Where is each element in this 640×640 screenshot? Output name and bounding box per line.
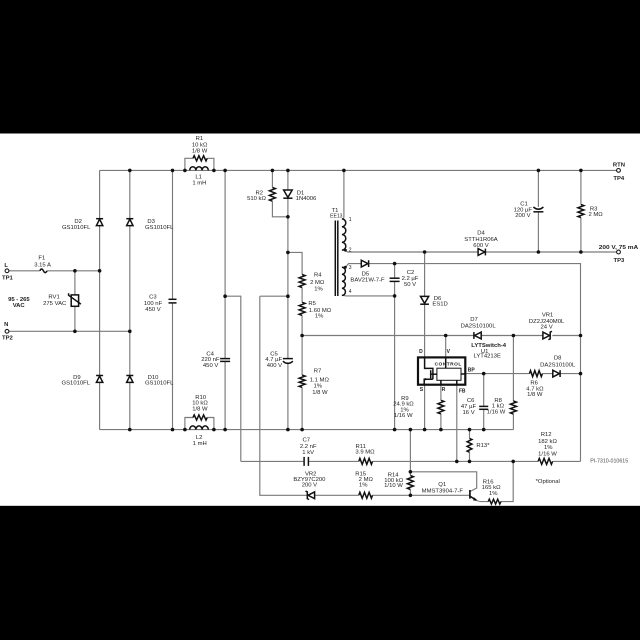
wire: R14 branch	[409, 430, 411, 496]
junction (287.9,252.4)	[286, 251, 290, 255]
junction (410.4,429.6)	[409, 428, 413, 432]
junction (225.1,296.2)	[223, 294, 227, 298]
resistor R2	[269, 187, 275, 201]
U1 internal R stub	[440, 380, 442, 384]
wire: V-pin sense line	[302, 335, 580, 337]
capacitor C1	[533, 207, 543, 209]
svg-text:F1: F1	[38, 255, 45, 261]
svg-text:RV1: RV1	[48, 294, 59, 300]
junction (287.9,429.6)	[286, 428, 290, 432]
diode D1	[284, 190, 293, 197]
junction (74.9,270.8)	[73, 269, 77, 273]
capacitor C3	[169, 298, 177, 300]
resistor R3	[578, 205, 584, 218]
junction (184.9,429.6)	[183, 428, 187, 432]
wire: RV1 vertical leads	[74, 271, 76, 332]
svg-text:MMST3904-7-F: MMST3904-7-F	[422, 488, 464, 494]
top letterbox band	[0, 0, 640, 134]
junction (580.9,170.4)	[579, 169, 583, 173]
inductor L1	[190, 167, 209, 171]
wire: T1 pin4 lead	[342, 294, 395, 297]
wire: Q1 collector line	[410, 472, 476, 491]
svg-text:510 kΩ: 510 kΩ	[247, 196, 266, 202]
svg-text:TP2: TP2	[2, 336, 14, 342]
svg-text:1/16 W: 1/16 W	[487, 410, 506, 416]
wire: lower feedback line with C7 R11 R12	[241, 460, 581, 462]
junction (225.1,429.6)	[223, 428, 227, 432]
svg-text:1: 1	[349, 217, 352, 223]
wire: C4 vertical branch	[224, 170, 226, 429]
wire: D3/D10 vertical branch	[129, 170, 131, 429]
svg-text:D4: D4	[477, 231, 485, 237]
wire: C2 vertical / bias return	[394, 264, 396, 430]
wire: C6 branch	[483, 374, 485, 430]
svg-text:100 nF: 100 nF	[144, 301, 163, 307]
resistor R13	[467, 438, 472, 452]
wire: N input line	[9, 330, 130, 332]
svg-text:600 V: 600 V	[473, 243, 488, 249]
svg-text:1 mH: 1 mH	[192, 181, 206, 187]
svg-text:D: D	[419, 349, 423, 355]
junction (394.6,429.6)	[393, 428, 397, 432]
terminal TP2 (N)	[5, 329, 9, 333]
resistor R10	[193, 415, 207, 420]
svg-text:*Optional: *Optional	[536, 479, 560, 485]
IC U1 LYTSwitch-4 outline	[418, 357, 465, 384]
svg-text:1 kV: 1 kV	[302, 450, 314, 456]
junction (129.8,331.3)	[128, 330, 132, 334]
svg-text:RTN: RTN	[613, 162, 625, 168]
svg-text:N: N	[4, 322, 8, 328]
wire: R pin lead through R9	[440, 385, 442, 430]
svg-text:3: 3	[349, 265, 352, 271]
svg-text:PI-7310-010615: PI-7310-010615	[590, 459, 628, 465]
svg-text:1/16 W: 1/16 W	[538, 452, 557, 458]
junction (469.5,429.6)	[468, 428, 472, 432]
svg-text:450 V: 450 V	[145, 307, 160, 313]
wire: T1 pin2 / drain / D4 output line	[342, 250, 617, 252]
svg-text:D7: D7	[470, 317, 478, 323]
diode D2	[96, 218, 103, 220]
junction (483.7,429.6)	[482, 428, 486, 432]
svg-text:TP3: TP3	[613, 258, 625, 264]
junction (287.9,296.2)	[286, 294, 290, 298]
svg-text:1/8 W: 1/8 W	[192, 148, 208, 154]
junction (410.4,495.3)	[409, 494, 413, 498]
svg-text:STTH1R06A: STTH1R06A	[464, 237, 497, 243]
zener VR1	[543, 332, 550, 339]
svg-text:GS1010FL: GS1010FL	[145, 225, 174, 231]
svg-text:BAV21W-7-F: BAV21W-7-F	[350, 277, 385, 283]
resistor R11	[359, 458, 373, 464]
wire: L input line with fuse gap	[9, 270, 100, 272]
junction (483.7,373.6)	[482, 372, 486, 376]
capacitor C6	[479, 405, 488, 407]
svg-text:L: L	[4, 263, 8, 269]
svg-text:D2: D2	[74, 219, 82, 225]
wire: R10 bypass loop	[185, 418, 214, 430]
diode D8	[553, 370, 560, 377]
capacitor C2	[390, 277, 400, 279]
wire: R15/R14/Q1 base line	[315, 494, 470, 496]
wire: snubber node to VR2 line	[260, 296, 307, 495]
svg-text:R: R	[442, 387, 446, 393]
junction (213.9,170.4)	[212, 169, 216, 173]
svg-text:GS1010FL: GS1010FL	[145, 381, 174, 387]
svg-text:1/8 W: 1/8 W	[312, 390, 328, 396]
junction (538.4,252.0)	[537, 250, 541, 254]
svg-text:3.9 MΩ: 3.9 MΩ	[355, 450, 375, 456]
svg-text:1/10 W: 1/10 W	[384, 483, 403, 489]
svg-text:275 VAC: 275 VAC	[43, 301, 67, 307]
diode D7	[475, 332, 482, 339]
terminal TP4 (RTN)	[617, 169, 621, 173]
svg-text:1/16 W: 1/16 W	[394, 413, 413, 419]
wire: T1 pin3 lead to D5	[342, 264, 395, 268]
junction (394.6,295.9)	[393, 294, 397, 298]
svg-text:BP: BP	[468, 367, 476, 373]
U1 internal V line	[445, 357, 447, 368]
terminal TP3 (output)	[617, 250, 621, 254]
svg-text:D8: D8	[554, 356, 562, 362]
resistor R5	[299, 302, 305, 315]
junction (129.8,429.6)	[128, 428, 132, 432]
junction (302.1,335.5)	[300, 334, 304, 338]
resistor R7	[299, 375, 305, 387]
junction (580.5,373.6)	[579, 372, 583, 376]
wire: R8 branch	[512, 336, 514, 430]
diode D10	[126, 375, 133, 377]
svg-text:L1: L1	[195, 174, 202, 180]
junction (456.8,461.4)	[455, 460, 459, 464]
transformer T1 bias winding	[342, 267, 346, 295]
diode D5	[361, 260, 368, 267]
resistor R14	[407, 476, 413, 490]
wire: R4/R5/R7 sense divider chain	[288, 252, 302, 429]
svg-text:200 V, 75 mA: 200 V, 75 mA	[599, 245, 639, 251]
junction (287.9,170.4)	[286, 169, 290, 173]
svg-text:R13*: R13*	[476, 443, 490, 449]
junction (213.9,429.6)	[212, 428, 216, 432]
wire: C1 branch	[537, 170, 539, 252]
U1 inner control block	[437, 368, 461, 380]
junction (287.9,216.8)	[286, 215, 290, 219]
T1 pin 3 polarity dot	[344, 266, 347, 269]
svg-text:182 kΩ: 182 kΩ	[538, 439, 557, 445]
svg-text:R5: R5	[308, 301, 316, 307]
junction (74.9,331.3)	[73, 330, 77, 334]
svg-text:LYT4213E: LYT4213E	[473, 354, 500, 360]
svg-text:2.2 nF: 2.2 nF	[300, 444, 317, 450]
schematic white background	[0, 134, 640, 506]
junction (302.1,429.6)	[300, 428, 304, 432]
svg-text:1/8 W: 1/8 W	[527, 392, 543, 398]
svg-text:400 V: 400 V	[267, 363, 282, 369]
junction (513.2,461.4)	[511, 460, 515, 464]
svg-text:R12: R12	[541, 432, 552, 438]
svg-text:1%: 1%	[544, 445, 553, 451]
junction (343.9,170.4)	[342, 169, 346, 173]
svg-text:GS1010FL: GS1010FL	[62, 381, 91, 387]
svg-text:1N4006: 1N4006	[296, 196, 317, 202]
svg-text:2 MΩ: 2 MΩ	[588, 212, 603, 218]
svg-text:450 V: 450 V	[203, 363, 218, 369]
junction (272.4,170.4)	[271, 169, 275, 173]
capacitor C4	[220, 358, 230, 360]
resistor R4	[299, 275, 305, 288]
T1 pin 2 polarity dot	[344, 249, 347, 252]
svg-text:R4: R4	[314, 272, 322, 278]
resistor R16	[488, 499, 501, 504]
junction (538.4,170.4)	[537, 169, 541, 173]
wire: R2 branch	[272, 170, 288, 216]
junction (424.6,429.6)	[423, 428, 427, 432]
svg-text:1%: 1%	[315, 314, 324, 320]
junction (99.6,270.8)	[98, 269, 102, 273]
wire: T1 pin1 lead	[342, 170, 344, 219]
junction (440.9,429.6)	[439, 428, 443, 432]
wire: R1 bypass loop	[185, 158, 214, 170]
wire: Q1 emitter to R16 to feedback line	[476, 461, 513, 501]
wire: R3 branch	[580, 170, 582, 252]
transformer T1 core	[334, 221, 336, 297]
svg-text:1%: 1%	[359, 483, 368, 489]
svg-text:1/8 W: 1/8 W	[192, 407, 208, 413]
svg-text:C3: C3	[149, 295, 157, 301]
svg-text:TP1: TP1	[2, 275, 14, 281]
varistor RV1	[71, 295, 78, 306]
capacitor C7	[303, 457, 305, 466]
svg-text:VAC: VAC	[13, 303, 26, 309]
fuse F1	[40, 269, 47, 273]
U1 internal FB stub	[456, 380, 458, 384]
wire: R13 branch	[469, 430, 471, 462]
resistor R12	[538, 458, 553, 464]
junction (580.9,252.0)	[579, 250, 583, 254]
svg-text:VR1: VR1	[542, 312, 553, 318]
svg-text:2 MΩ: 2 MΩ	[310, 280, 325, 286]
svg-text:TP4: TP4	[613, 176, 625, 182]
svg-text:1%: 1%	[314, 384, 323, 390]
wire: BP line with R6 and D8	[465, 373, 580, 375]
resistor R15	[359, 492, 373, 498]
wire: C3 vertical branch	[172, 170, 174, 429]
wire: top DC bus	[100, 169, 617, 171]
terminal TP1 (L)	[5, 269, 9, 273]
svg-text:1%: 1%	[489, 491, 498, 497]
svg-text:200 V: 200 V	[302, 483, 317, 489]
resistor R1	[193, 156, 207, 161]
svg-text:Q1: Q1	[438, 482, 446, 488]
junction (129.8,170.4)	[128, 169, 132, 173]
svg-text:200 V: 200 V	[515, 213, 530, 219]
zener VR2	[308, 492, 315, 499]
resistor R8	[510, 401, 516, 414]
wire: tap C4 node to C7 line	[225, 296, 241, 461]
junction (184.9,170.4)	[183, 169, 187, 173]
junction (469.5,461.4)	[468, 460, 472, 464]
svg-text:16 V: 16 V	[463, 410, 475, 416]
svg-text:2: 2	[349, 248, 352, 254]
svg-text:D3: D3	[147, 219, 155, 225]
transformer T1 primary winding	[342, 219, 346, 250]
svg-text:ES1D: ES1D	[432, 301, 447, 307]
svg-text:1%: 1%	[314, 286, 323, 292]
junction (424.6,252.0)	[423, 250, 427, 254]
svg-text:EE13: EE13	[330, 214, 342, 220]
svg-text:4: 4	[349, 289, 352, 295]
diode D4	[478, 249, 485, 256]
junction (580.5,335.5)	[579, 334, 583, 338]
junction (445.7,335.5)	[444, 334, 448, 338]
svg-text:R7: R7	[314, 369, 322, 375]
diode D9	[96, 375, 103, 377]
wire: D2/D9 vertical branch	[99, 170, 101, 429]
junction (394.6,263.6)	[393, 262, 397, 266]
svg-text:FB: FB	[459, 388, 466, 394]
U1 internal MOSFET	[425, 357, 433, 369]
capacitor C5	[283, 358, 293, 360]
junction (513.4,335.5)	[512, 334, 516, 338]
U1 internal BP line	[461, 373, 465, 375]
wire: bottom return bus	[100, 429, 514, 431]
resistor R9 (R pin)	[438, 400, 444, 414]
transistor Q1	[469, 490, 471, 499]
inductor L2	[190, 426, 209, 430]
wire: FB pin line down to divider	[456, 385, 458, 462]
resistor R6	[529, 371, 542, 377]
wire: D1/C5 vertical branch	[287, 170, 289, 429]
svg-text:R1: R1	[196, 136, 204, 142]
svg-text:DA2S10100L: DA2S10100L	[540, 362, 576, 368]
svg-text:DA2S10100L: DA2S10100L	[461, 323, 497, 329]
svg-text:1 mH: 1 mH	[193, 441, 207, 447]
wire: drain line through D6	[424, 252, 426, 357]
svg-text:24 V: 24 V	[541, 325, 553, 331]
svg-text:50 V: 50 V	[404, 282, 416, 288]
diode D6	[421, 296, 429, 303]
svg-text:C7: C7	[303, 438, 311, 444]
junction (225.1,170.4)	[223, 169, 227, 173]
wire: S pin lead	[424, 385, 426, 430]
svg-text:LYTSwitch-4: LYTSwitch-4	[471, 343, 507, 349]
junction (410.4,471.8)	[409, 470, 413, 474]
wire: V pin lead	[445, 336, 447, 358]
wire: feedback rail to VR1/D8/R12	[395, 264, 581, 462]
svg-text:GS1010FL: GS1010FL	[62, 225, 91, 231]
svg-text:CONTROL: CONTROL	[435, 361, 462, 367]
svg-text:3.15 A: 3.15 A	[34, 262, 51, 268]
junction (172.5,170.4)	[171, 169, 175, 173]
bottom letterbox band	[0, 506, 640, 640]
junction (172.5,429.6)	[171, 428, 175, 432]
diode D3	[126, 218, 133, 220]
